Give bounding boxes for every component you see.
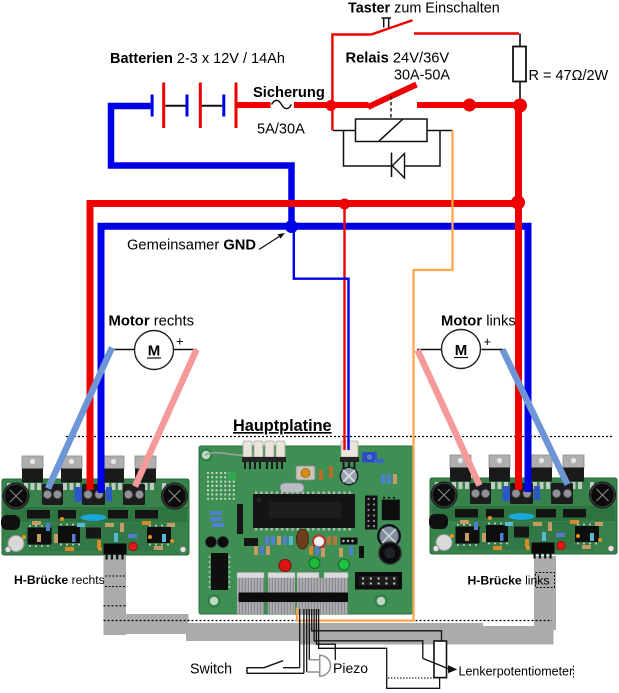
junction node: resistor bottom	[513, 99, 527, 113]
wire: fuse to relay	[294, 102, 369, 108]
relay K1 coil	[356, 119, 428, 142]
svg-text:Switch: Switch	[190, 662, 232, 678]
relay K1 switch blade	[368, 85, 417, 108]
resistor R 47ohm	[513, 47, 526, 82]
svg-text:+: +	[484, 334, 492, 349]
svg-text:M: M	[148, 343, 161, 360]
svg-text:Piezo: Piezo	[333, 660, 368, 676]
svg-text:M: M	[455, 342, 468, 359]
motor M rechts	[112, 349, 197, 351]
gray cable: center horizontal run	[186, 623, 483, 641]
wire: freewheel diode loop	[344, 131, 441, 167]
wire: thin blue to mainboard	[294, 228, 349, 450]
white molex connectors top	[243, 441, 358, 457]
dotted frame bits near labels	[105, 576, 126, 587]
pushbutton actuator	[382, 18, 392, 28]
relay K1: dashed actuator link	[390, 96, 392, 119]
wire: red feed to relay coil	[331, 103, 333, 131]
svg-text:H-Brücke links: H-Brücke links	[468, 574, 550, 588]
microcontroller DIP40	[255, 492, 351, 531]
gray cable: right vertical run	[534, 556, 556, 630]
battery B1 plates	[151, 83, 238, 129]
svg-text:5A/30A: 5A/30A	[257, 122, 305, 138]
svg-text:H-Brücke rechts: H-Brücke rechts	[14, 573, 105, 587]
svg-text:Motor links: Motor links	[441, 314, 516, 330]
gray cable: left horizontal run	[104, 614, 189, 634]
gray cable: right horizontal run	[300, 626, 554, 645]
svg-text:R = 47Ω/2W: R = 47Ω/2W	[529, 68, 609, 84]
dotted line under potentiometer	[388, 677, 447, 679]
svg-text:30A-50A: 30A-50A	[394, 68, 450, 84]
gray cable: left vertical run	[104, 556, 127, 635]
diode D1	[391, 153, 393, 178]
svg-text:Gemeinsamer GND: Gemeinsamer GND	[127, 238, 256, 254]
piezo	[307, 660, 320, 672]
wire: signal bundle from mainboard	[300, 609, 442, 688]
wire: GND bus blue thick	[101, 226, 528, 493]
GND label arrow	[259, 236, 280, 250]
PCB H-Bruecke links	[429, 455, 617, 559]
svg-text:Lenkerpotentiometer: Lenkerpotentiometer	[459, 665, 574, 679]
wire: red bus thick (relay out, down right side, across, down left side)	[90, 204, 519, 491]
IDC box header	[355, 572, 402, 590]
wire: red battery plus to fuse	[237, 102, 271, 108]
motor M links	[417, 349, 503, 351]
mainboard left/middle/right small parts	[210, 511, 224, 527]
PCB H-Bruecke rechts	[1, 456, 189, 560]
wire: thin red to mainboard	[343, 205, 345, 450]
junction node: GND	[285, 220, 298, 233]
wire: battery minus blue thick	[111, 106, 292, 223]
svg-text:Taster zum Einschalten: Taster zum Einschalten	[348, 1, 500, 17]
dotted separator line above boards	[66, 436, 612, 438]
svg-text:Batterien 2-3 x 12V / 14Ah: Batterien 2-3 x 12V / 14Ah	[110, 51, 285, 67]
dotted picture-frame line across cables	[104, 620, 553, 622]
dotted mark on left cable	[104, 605, 127, 607]
svg-text:Hauptplatine: Hauptplatine	[233, 417, 332, 435]
wire: coil right lead	[427, 130, 453, 132]
wire: taster loop thin red	[332, 34, 519, 104]
wire: coil left lead	[333, 130, 356, 132]
taster S1 blade	[371, 20, 413, 35]
potentiometer Lenkerpotentiometer	[434, 641, 447, 678]
fuse F1 tilde	[272, 100, 292, 108]
wire: relay out to resistor node	[417, 102, 519, 108]
junction node: red tap to mainboard	[339, 199, 350, 210]
junction node: relay out	[463, 99, 476, 112]
svg-text:Relais 24V/36V: Relais 24V/36V	[346, 51, 450, 67]
wire: orange relay sense to mainboard	[297, 131, 453, 621]
ribbon cable headers	[237, 573, 264, 579]
svg-text:Sicherung: Sicherung	[253, 85, 325, 101]
switch S2	[247, 661, 304, 674]
junction node: red bus corner	[511, 196, 525, 210]
wire: black lead to resistor R	[519, 34, 521, 101]
junction node: fuse/relay	[326, 100, 337, 111]
PCB Hauptplatine	[199, 441, 413, 614]
svg-text:+: +	[176, 334, 184, 349]
svg-text:Motor rechts: Motor rechts	[109, 314, 195, 330]
